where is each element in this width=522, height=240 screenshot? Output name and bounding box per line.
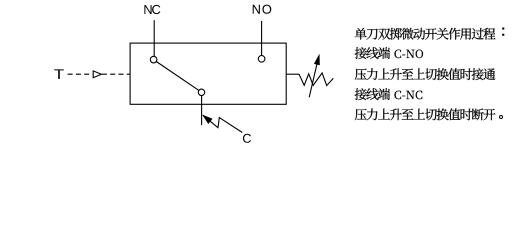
switch S1 body outline: [130, 43, 286, 104]
annotation text line 2a: 接线端: [355, 47, 391, 59]
switch contact NO: [258, 56, 265, 63]
wire common terminal lead: [201, 96, 203, 126]
terminal label NO: [253, 5, 272, 14]
annotation text line 2b: C-NO: [395, 50, 424, 59]
switch lever arm: [156, 62, 199, 91]
annotation text line 5: 压力上升至上切换值时断开。: [355, 108, 496, 120]
switch common contact C: [198, 89, 204, 95]
leader arrowhead pointing at common lead: [203, 115, 212, 123]
leader line from label C to common lead: [203, 115, 242, 132]
label C (common terminal): [243, 134, 251, 143]
wire NO output lead to resistor: [286, 73, 299, 75]
wire T dashed actuation line left segment: [68, 73, 94, 75]
resistor RP wiper arrowhead: [314, 55, 319, 65]
annotation text line 1 colon: [502, 28, 504, 30]
wire NC terminal lead: [153, 20, 155, 56]
annotation text line 3: 压力上升至上切换值时接通: [355, 68, 496, 80]
resistor RP (adjustable, zigzag): [299, 73, 333, 86]
wire NO terminal lead: [261, 21, 263, 56]
annotation text line 5 full stop: [500, 116, 503, 119]
wire T dashed actuation line right segment: [102, 73, 130, 75]
annotation text line 1: 单刀双掷微动开关作用过程：: [355, 28, 496, 40]
resistor RP wiper arrow shaft: [309, 57, 318, 97]
annotation text line 4a: 接线端: [355, 88, 391, 100]
terminal label NC: [144, 5, 160, 14]
arrowhead on T actuation line (open): [93, 71, 101, 78]
label T (actuation input): [54, 69, 64, 79]
switch contact NC: [150, 56, 157, 63]
annotation text line 4b: C-NC: [395, 91, 423, 100]
